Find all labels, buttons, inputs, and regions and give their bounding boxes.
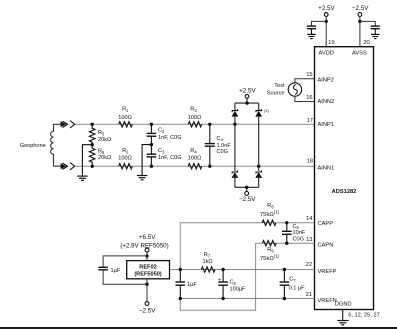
resistor R2 xyxy=(119,164,133,169)
svg-text:0.1 µF: 0.1 µF xyxy=(289,285,306,291)
diode D1 xyxy=(232,109,239,117)
node REF02 input branch xyxy=(145,254,148,257)
node 1uF top xyxy=(179,268,182,271)
svg-text:1kΩ: 1kΩ xyxy=(202,259,212,265)
terminal +2.5V (AVDD) xyxy=(324,13,328,17)
wire VREFP net xyxy=(170,269,315,271)
wire clamp left rail xyxy=(234,117,236,171)
terminal +6.5V xyxy=(145,248,149,252)
svg-text:R1: R1 xyxy=(122,107,129,113)
svg-text:REF02: REF02 xyxy=(139,264,156,270)
svg-text:17: 17 xyxy=(307,118,313,124)
node C2/C3 midpoint xyxy=(150,143,153,146)
resistor R8 xyxy=(262,220,276,225)
ground G4 xyxy=(371,34,380,38)
node C2 top xyxy=(150,123,153,126)
svg-text:VREFP: VREFP xyxy=(318,269,337,275)
node C6 bottom xyxy=(221,297,224,300)
node clamp right on bottom wire xyxy=(257,165,260,168)
connector female chevron bottom xyxy=(70,163,75,170)
svg-text:100Ω: 100Ω xyxy=(118,156,132,162)
wire REF02 input cap loop xyxy=(103,256,147,284)
node AVDD branch xyxy=(325,20,328,23)
wire -2.5V clamp rail xyxy=(235,178,259,192)
svg-text:+6.5V: +6.5V xyxy=(139,234,156,241)
node C7 bottom xyxy=(283,297,286,300)
svg-text:1µF: 1µF xyxy=(111,268,121,274)
node C6 top xyxy=(221,268,224,271)
svg-text:C4: C4 xyxy=(217,136,224,142)
terminal -2.5V (clamp) xyxy=(245,192,249,196)
svg-text:(REF5050): (REF5050) xyxy=(134,271,161,277)
resistor R3 xyxy=(188,122,202,127)
capacitor 1uF (REF02 input) xyxy=(98,267,108,270)
capacitor C5 xyxy=(282,223,292,243)
svg-text:DGND: DGND xyxy=(335,302,352,308)
svg-text:CAPN: CAPN xyxy=(318,242,334,248)
svg-text:AVSS: AVSS xyxy=(352,51,367,57)
page border line xyxy=(0,327,397,329)
resistor R9 xyxy=(263,241,277,246)
svg-text:R2: R2 xyxy=(122,148,129,154)
ground G5 xyxy=(337,321,348,325)
wire DGND ground stem xyxy=(342,310,344,321)
terminal +2.5V (clamp) xyxy=(245,94,249,98)
node C5 bottom xyxy=(285,242,288,245)
svg-text:−2.5V: −2.5V xyxy=(139,308,156,315)
svg-text:1nF, C0G: 1nF, C0G xyxy=(158,135,182,141)
svg-text:Source: Source xyxy=(267,90,285,96)
wire REF02 input xyxy=(146,252,148,261)
svg-text:AVDD: AVDD xyxy=(319,51,334,57)
svg-text:R8: R8 xyxy=(267,203,274,209)
wire CAPP net xyxy=(180,223,314,270)
diode D3 xyxy=(232,170,239,178)
svg-text:19: 19 xyxy=(328,40,334,46)
ground G2 xyxy=(137,176,147,180)
svg-text:C7: C7 xyxy=(289,276,296,282)
svg-text:−2.5V: −2.5V xyxy=(239,196,256,203)
svg-text:AINP1: AINP1 xyxy=(318,122,334,128)
resistor R7 xyxy=(201,267,215,272)
svg-text:14: 14 xyxy=(306,216,312,222)
svg-text:1µF: 1µF xyxy=(187,282,197,288)
svg-text:AINN1: AINN1 xyxy=(318,165,335,171)
capacitor C3 xyxy=(147,145,157,167)
IC REF02 xyxy=(127,261,170,279)
capacitor C2 xyxy=(147,124,157,144)
node AVSS branch xyxy=(358,20,361,23)
source test source xyxy=(288,83,301,96)
resistor R1 xyxy=(119,122,133,127)
svg-text:(+2.8V REF5050): (+2.8V REF5050) xyxy=(120,242,168,249)
wire CAPN net xyxy=(180,243,314,310)
geophone coil xyxy=(51,124,61,166)
IC ADS1282 xyxy=(315,47,374,310)
svg-text:+2.5V: +2.5V xyxy=(318,5,335,12)
node C3 bottom xyxy=(150,165,153,168)
svg-text:22: 22 xyxy=(306,262,312,268)
wire AVDD bypass branch xyxy=(312,21,327,26)
svg-text:20: 20 xyxy=(363,40,369,46)
wire REF02 ground xyxy=(146,279,148,302)
wire R5/R6 midpoint to ground xyxy=(82,145,92,176)
node C4 top xyxy=(208,123,211,126)
svg-text:C3: C3 xyxy=(158,148,165,154)
connector male arrow bottom xyxy=(61,163,68,169)
svg-text:+: + xyxy=(218,277,221,283)
svg-text:1nF, C0G: 1nF, C0G xyxy=(158,155,182,161)
svg-text:10nF: 10nF xyxy=(293,230,306,236)
svg-text:100µF: 100µF xyxy=(230,286,247,292)
svg-text:18: 18 xyxy=(307,159,313,165)
wire bottom signal line xyxy=(75,165,315,167)
wire AVSS bypass branch xyxy=(360,21,375,26)
resistor R6 xyxy=(89,145,95,167)
wire AVSS supply xyxy=(359,16,361,46)
svg-text:R4: R4 xyxy=(190,148,197,154)
svg-text:−2.5V: −2.5V xyxy=(352,5,369,12)
svg-text:R5: R5 xyxy=(98,130,105,136)
ground G1 xyxy=(77,176,87,180)
svg-text:15: 15 xyxy=(306,72,312,78)
wire VREFN net xyxy=(180,298,314,300)
svg-text:20kΩ: 20kΩ xyxy=(98,137,111,143)
svg-text:ADS1282: ADS1282 xyxy=(332,189,357,195)
svg-text:21: 21 xyxy=(306,292,312,298)
wire clamp right rail xyxy=(258,117,260,171)
ground G3 xyxy=(307,34,316,38)
svg-text:CAPP: CAPP xyxy=(318,221,334,227)
node REF02 ground branch xyxy=(145,283,148,286)
node C4 bottom xyxy=(208,165,211,168)
svg-text:C6: C6 xyxy=(230,280,237,286)
svg-text:C0G: C0G xyxy=(217,149,229,155)
node 1uF bottom xyxy=(179,297,182,300)
wire test source loop xyxy=(295,79,315,102)
terminal -2.5V (REF02) xyxy=(145,302,149,306)
capacitor AVDD bypass xyxy=(307,26,316,34)
node R5/R6 midpoint xyxy=(91,143,94,146)
svg-text:(3): (3) xyxy=(264,108,269,113)
resistor R4 xyxy=(188,164,202,169)
diode D4 xyxy=(255,170,262,178)
terminal -2.5V (AVSS) xyxy=(358,13,362,17)
svg-text:100Ω: 100Ω xyxy=(118,115,132,121)
svg-text:R6: R6 xyxy=(98,149,105,155)
node clamp bottom center xyxy=(245,186,248,189)
svg-text:100Ω: 100Ω xyxy=(188,156,202,162)
svg-text:AINN2: AINN2 xyxy=(318,99,335,105)
wire top signal line xyxy=(75,123,315,125)
wire +2.5V clamp rail xyxy=(235,98,259,110)
svg-text:C0G: C0G xyxy=(293,236,305,242)
node C7 top xyxy=(283,268,286,271)
node clamp top center xyxy=(245,101,248,104)
connector female chevron top xyxy=(70,121,75,128)
svg-text:20kΩ: 20kΩ xyxy=(98,155,111,161)
diode D2 xyxy=(255,109,262,117)
capacitor C7 xyxy=(280,270,290,299)
svg-text:AINP2: AINP2 xyxy=(318,77,334,83)
svg-text:100Ω: 100Ω xyxy=(188,115,202,121)
capacitor C6 xyxy=(218,270,228,299)
wire AVDD supply xyxy=(325,16,327,46)
node C5 top xyxy=(285,221,288,224)
svg-text:Test: Test xyxy=(274,83,285,89)
svg-text:+2.5V: +2.5V xyxy=(239,88,256,95)
svg-text:6, 12, 25, 27: 6, 12, 25, 27 xyxy=(348,313,380,319)
capacitor C1 1uF (VREF bypass) xyxy=(176,270,186,299)
svg-text:R7: R7 xyxy=(204,252,211,258)
svg-text:13: 13 xyxy=(306,237,312,243)
capacitor C4 xyxy=(205,124,215,166)
node R5 top xyxy=(91,123,94,126)
svg-text:C2: C2 xyxy=(158,128,165,134)
capacitor AVSS bypass xyxy=(371,26,380,34)
node clamp left on top wire xyxy=(233,123,236,126)
wire C2/C3 midpoint to ground xyxy=(142,145,151,176)
svg-text:R3: R3 xyxy=(190,107,197,113)
svg-text:Geophone: Geophone xyxy=(20,143,46,149)
node R6 bottom xyxy=(91,165,94,168)
resistor R5 xyxy=(89,124,95,144)
connector male arrow top xyxy=(61,121,68,127)
svg-text:16: 16 xyxy=(306,95,312,101)
